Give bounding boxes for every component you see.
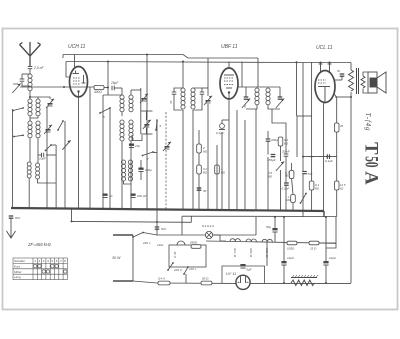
wire [30, 116, 38, 118]
wire plug body [132, 235, 134, 281]
svg-text:MΩ: MΩ [315, 187, 319, 191]
svg-text:500: 500 [13, 82, 18, 86]
wire bus corner [323, 211, 325, 217]
wire [140, 88, 142, 111]
wire [311, 190, 313, 211]
wire cathode row [20, 86, 94, 88]
wire UCH grid [66, 62, 71, 78]
wire [341, 76, 343, 80]
wire [182, 110, 184, 210]
svg-text:MΩ: MΩ [221, 171, 225, 175]
wire B+ right vertical [350, 97, 352, 283]
junction [283, 282, 285, 284]
wire [146, 62, 148, 210]
wire bottom right [250, 282, 351, 284]
resistor 50 ohm [201, 281, 212, 285]
junction [71, 220, 73, 222]
wire [133, 281, 157, 283]
wire [285, 156, 287, 183]
junction [350, 96, 352, 98]
wire [130, 141, 132, 209]
wire [37, 138, 39, 163]
coil L4 medium wave [28, 121, 32, 138]
svg-text:MΩ: MΩ [203, 171, 207, 175]
tube UCH 11 [70, 67, 88, 97]
wire [145, 111, 147, 120]
junction [311, 156, 313, 158]
wire [207, 58, 209, 96]
fuse bump [177, 241, 185, 245]
svg-text:5nF: 5nF [161, 227, 166, 231]
resistor cathode bias [334, 123, 339, 132]
wire UBF top pin [228, 62, 230, 69]
wire [29, 116, 31, 121]
wire [274, 232, 276, 242]
svg-text:UCL 11: UCL 11 [316, 45, 333, 51]
wire [121, 112, 123, 116]
wire [363, 89, 368, 94]
svg-text:0,1: 0,1 [315, 183, 320, 187]
switch contact 3 [13, 134, 24, 137]
svg-text:T: T [361, 142, 382, 155]
wire [350, 63, 352, 71]
wire [246, 105, 257, 109]
resistor 0.1 Mohm [278, 137, 283, 146]
transformer core [357, 68, 359, 94]
capacitor 0.1 uF [284, 183, 289, 185]
svg-text:50µ: 50µ [266, 225, 271, 229]
dial lamp [205, 231, 212, 238]
capacitor 0.1 uF coupling [327, 154, 329, 159]
svg-text:MΩ: MΩ [268, 175, 272, 179]
resistor 1 Mohm [215, 165, 220, 174]
wire [38, 179, 57, 183]
wire [193, 88, 202, 92]
wire [198, 130, 200, 210]
wire [29, 97, 31, 99]
resistor 400 ohm [94, 85, 104, 89]
svg-text:5n: 5n [337, 69, 341, 73]
coil L3 [36, 99, 40, 116]
wire [279, 87, 281, 97]
capacitor 25 uF [112, 86, 114, 91]
svg-text:MΩ: MΩ [287, 198, 291, 202]
wire [141, 133, 153, 135]
svg-text:0,4 A: 0,4 A [158, 277, 165, 281]
coil IF2 primary [181, 88, 185, 109]
wire top bus A [63, 55, 258, 59]
dashed gang linkage line [165, 112, 167, 209]
svg-text:220 v: 220 v [142, 241, 151, 245]
wire [216, 145, 218, 210]
switch contact 2a [45, 144, 52, 151]
resistor 12.5 kohm [334, 181, 339, 190]
electrolytic capacitor 10 [102, 194, 107, 198]
capacitor 150 uF [271, 155, 276, 157]
svg-text:25 Ω: 25 Ω [309, 247, 317, 251]
capacitor 0.1 uF UBF cathode [219, 124, 225, 130]
svg-text:0,1µF: 0,1µF [325, 159, 333, 163]
wire [181, 216, 183, 235]
wire [336, 190, 338, 217]
label T 50 A [361, 142, 382, 185]
wire [55, 145, 57, 208]
wire [274, 217, 276, 228]
junction [283, 216, 285, 218]
junction [325, 282, 327, 284]
svg-text:Mittel: Mittel [14, 270, 22, 274]
coil L1 antenna [28, 74, 32, 91]
resistor 0.4 A [158, 281, 170, 285]
speaker [368, 72, 386, 93]
junction [182, 61, 184, 63]
wire [104, 87, 108, 89]
coil L2 shortwave [28, 99, 32, 116]
svg-text:UCH 11: UCH 11 [68, 44, 86, 50]
svg-text:T-f4g: T-f4g [364, 113, 372, 132]
svg-text:12,5: 12,5 [340, 183, 346, 187]
wire UCL anode to transformer [335, 96, 351, 98]
junction [274, 216, 276, 218]
svg-text:Schalter: Schalter [14, 259, 26, 263]
wire [38, 97, 50, 99]
wire heater chain [206, 241, 336, 243]
svg-text:200 pF: 200 pF [136, 194, 147, 198]
wire [320, 63, 322, 65]
resistor 2 Mohm [197, 144, 202, 153]
wire AF line [303, 156, 337, 158]
wire [292, 203, 294, 211]
tube UBF 11 [220, 68, 238, 99]
wire [145, 128, 147, 134]
wire [22, 73, 30, 75]
transformer output primary [349, 70, 354, 91]
wire [221, 120, 223, 124]
junction [329, 62, 331, 64]
switch contact 1 [57, 120, 64, 131]
rectifier box [222, 266, 265, 284]
wire [296, 116, 298, 157]
svg-text:110 v: 110 v [189, 267, 197, 271]
resistor 1 Mohm af [291, 195, 296, 203]
wire [29, 138, 31, 162]
svg-text:2: 2 [202, 146, 205, 150]
wire [140, 160, 142, 168]
capacitor 50 pF [197, 188, 202, 190]
transformer output secondary [361, 76, 365, 88]
svg-text:UBF 11: UBF 11 [221, 44, 238, 50]
wire [124, 181, 131, 184]
wire [156, 209, 158, 235]
junction [107, 87, 109, 89]
electrolytic capacitor 15 uF [129, 144, 134, 148]
wire left edge vertical [12, 109, 14, 208]
wire [336, 157, 338, 181]
wire [141, 110, 153, 112]
wire AVC drop [71, 209, 73, 222]
wire [193, 94, 202, 110]
coil L7 [36, 163, 40, 179]
wire [51, 144, 56, 146]
wire UCH cathode down [78, 92, 80, 209]
wire IF3 top rail [238, 86, 280, 88]
wire AVC jog [190, 216, 192, 222]
wire [255, 217, 257, 235]
wire mains to lamp [157, 234, 205, 236]
svg-text:Ü 45: Ü 45 [173, 251, 177, 258]
svg-text:10µF: 10µF [39, 157, 46, 161]
wire screen feed [107, 62, 109, 96]
svg-text:650Ω: 650Ω [190, 241, 198, 245]
wire UCL grid return [324, 101, 325, 211]
wire [102, 95, 104, 209]
wire [292, 179, 293, 195]
svg-text:MΩ: MΩ [284, 142, 288, 146]
wire heater end jog [319, 243, 336, 248]
wire AVC line lower [72, 220, 192, 223]
trimmer capacitor antenna 1 [46, 99, 54, 108]
wire [46, 154, 56, 156]
svg-text:100µ: 100µ [145, 168, 152, 172]
svg-text:70: 70 [169, 100, 173, 104]
svg-text:12µF: 12µF [329, 256, 336, 260]
electrolytic capacitor 50 uF [272, 228, 277, 232]
junction [156, 221, 158, 223]
svg-text:6,3 0,3 A: 6,3 0,3 A [202, 224, 214, 228]
wire [202, 87, 208, 89]
svg-text:12µF: 12µF [287, 256, 294, 260]
capacitor 10 uF bandswitch [42, 153, 44, 158]
svg-text:0,1µF: 0,1µF [216, 131, 224, 135]
svg-text:20 nF: 20 nF [281, 150, 290, 154]
coil L6 longwave [27, 162, 31, 178]
wire [302, 174, 304, 217]
switch contact voltage 2 [183, 266, 189, 275]
switch contact mains [132, 232, 144, 238]
capacitor IF3 secondary trim [278, 97, 283, 99]
wire [121, 88, 123, 95]
wire [146, 55, 148, 62]
coil IF1 secondary [129, 95, 133, 112]
capacitor 5 nF [340, 74, 345, 76]
coil oscillator 1 [120, 120, 124, 141]
wire [121, 141, 123, 209]
switch contact tone [300, 193, 307, 204]
wire [109, 108, 111, 209]
wire [267, 131, 269, 139]
wire [140, 172, 142, 181]
wire UCL cathode [334, 94, 337, 123]
svg-text:0,1µF: 0,1µF [282, 187, 290, 191]
wire [130, 90, 132, 95]
switch contact 4 [99, 107, 111, 114]
svg-text:MΩ: MΩ [203, 150, 207, 154]
wire [325, 217, 327, 261]
variable arrow wave trim [62, 140, 70, 150]
resistor 0.2 Mohm [197, 165, 202, 174]
electrolytic capacitor 12 uF second [323, 261, 328, 265]
wire trimmer 1 down [46, 107, 48, 208]
node antenna junction [29, 96, 31, 98]
wire [131, 89, 141, 91]
mains plug [113, 235, 133, 281]
antenna [20, 42, 41, 66]
tube UY 11 [236, 275, 250, 289]
electrolytic capacitor 200 pF [130, 194, 135, 198]
wire UCL anode feed [302, 63, 304, 172]
wire UBF plate feed [241, 62, 243, 88]
trimmer capacitor oscillator pad [140, 94, 148, 103]
wire [143, 233, 157, 236]
junction [325, 216, 327, 218]
wire [213, 234, 256, 236]
heater UBF 11 [246, 239, 256, 242]
wire [335, 79, 342, 81]
resistor 650 ohm [191, 245, 201, 249]
capacitor 5 uF [240, 264, 245, 268]
svg-text:110v: 110v [157, 243, 164, 247]
wire to volume [272, 109, 286, 154]
heater UCH 11 [262, 239, 272, 242]
coil bandswitch 1 [121, 160, 125, 181]
svg-text:10: 10 [109, 194, 113, 198]
chassis ground bus [11, 208, 324, 211]
wire [174, 94, 183, 110]
wire [268, 105, 280, 109]
wire antenna to coil L1 [29, 69, 31, 74]
wire [228, 120, 230, 210]
trimmer capacitor IF2 secondary [204, 96, 212, 105]
svg-text:8nF: 8nF [15, 216, 20, 220]
wire [89, 87, 91, 209]
wire top bus B [66, 62, 309, 63]
svg-text:50: 50 [203, 189, 207, 193]
wire [174, 88, 183, 92]
electrolytic capacitor 100 [138, 168, 143, 172]
svg-text:ZF=468 kHz: ZF=468 kHz [27, 242, 52, 247]
variable arrow volume potentiometer [276, 162, 284, 172]
variable arrow IF3 secondary [276, 99, 284, 109]
wire [103, 94, 122, 96]
wire [213, 234, 220, 236]
wire loop [132, 135, 142, 141]
trimmer capacitor oscillator [143, 120, 151, 129]
wire bottom [157, 282, 236, 284]
wire [255, 139, 257, 210]
svg-text:5µF: 5µF [246, 268, 251, 272]
electrolytic capacitor 12 uF first [281, 261, 286, 265]
svg-text:400Ω: 400Ω [94, 90, 102, 94]
svg-text:0,5: 0,5 [268, 171, 273, 175]
junction [302, 156, 304, 158]
band switch table [13, 258, 67, 280]
wire [207, 104, 209, 210]
wire [21, 74, 23, 79]
wire [156, 119, 158, 209]
wire [267, 141, 269, 154]
svg-text:0,2: 0,2 [203, 167, 208, 171]
wire [335, 217, 337, 243]
wire [245, 87, 247, 97]
svg-text:UBF 11: UBF 11 [249, 248, 253, 258]
capacitor parallel to L1 [20, 79, 25, 81]
wire [192, 110, 194, 210]
svg-text:25µF: 25µF [110, 81, 119, 85]
wire IF3 feed [257, 58, 259, 87]
capacitor 200 uF coupling [266, 139, 271, 141]
variable arrow antenna trim [12, 84, 20, 94]
wire [64, 121, 66, 209]
svg-text:2,5 nF: 2,5 nF [33, 66, 45, 70]
wire [325, 265, 327, 283]
trimmer capacitor padder [163, 142, 171, 151]
wire [266, 242, 268, 266]
mains transformer box [169, 245, 206, 267]
resistor 0.3 Mohm [289, 171, 294, 179]
svg-text:UY 11: UY 11 [226, 272, 236, 276]
svg-text:220 V: 220 V [173, 268, 183, 272]
svg-text:45: 45 [340, 124, 344, 128]
wire detector load [267, 157, 269, 210]
wire [255, 109, 257, 139]
wire [236, 110, 238, 210]
svg-text:0,1: 0,1 [284, 138, 289, 142]
wire [28, 178, 30, 208]
wire UCL top bus [309, 62, 352, 64]
junction [296, 61, 298, 63]
wire UCH top pin [74, 55, 76, 68]
wire [291, 163, 293, 171]
wire to output grid [297, 115, 312, 117]
wire [140, 111, 142, 134]
choke core hatching [292, 275, 318, 278]
capacitor IF2 primary [172, 92, 177, 94]
svg-text:kΩ: kΩ [340, 187, 343, 191]
wire [283, 217, 285, 261]
wire [182, 62, 184, 89]
UCL 11 top pins [319, 64, 332, 73]
resistor 0.1 Mohm grid [309, 181, 314, 190]
svg-text:UCL 11: UCL 11 [233, 248, 237, 258]
capacitor 20 nF [284, 154, 289, 156]
wire [29, 91, 31, 98]
wire [329, 63, 331, 65]
wire [285, 185, 287, 210]
switch contact 7 [142, 151, 154, 156]
svg-text:30 W: 30 W [112, 256, 121, 260]
tube UCL 11 [315, 71, 335, 103]
coil IF1 primary [120, 95, 124, 112]
svg-text:100Ω: 100Ω [287, 247, 295, 251]
wire [350, 92, 352, 97]
wire [22, 82, 30, 86]
wire [363, 72, 368, 76]
trimmer capacitor antenna 2 [44, 125, 52, 134]
junction [63, 86, 65, 88]
svg-text:50: 50 [361, 156, 382, 168]
wire UBF cathode [228, 93, 230, 121]
filter choke [291, 280, 315, 286]
capacitor IF3 primary trim [244, 97, 249, 99]
junction [320, 62, 322, 64]
wire [336, 132, 338, 157]
wire [244, 120, 246, 210]
wire [185, 274, 187, 283]
heater UCL 11 [230, 239, 240, 242]
wire [283, 265, 285, 283]
ground [7, 230, 16, 238]
capacitor 5 nF mains [155, 227, 160, 229]
